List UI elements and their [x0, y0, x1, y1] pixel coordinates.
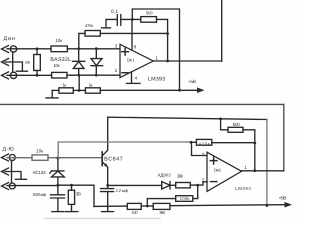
wire C1 right lead: [121, 18, 141, 20]
ground C3: [102, 211, 114, 213]
resistor R15 360 label: [159, 210, 166, 215]
arrow +5V bottom: [285, 202, 293, 208]
svg-text:360: 360: [159, 210, 166, 215]
connector X2 pin 3 arrow: [2, 183, 9, 190]
svg-text:10к: 10к: [54, 63, 60, 68]
wire pin2 node to DA2 pin2: [198, 182, 207, 185]
svg-text:470к: 470к: [85, 23, 93, 28]
connector X1 body bus: [12, 52, 14, 72]
svg-text:750: 750: [76, 191, 82, 196]
capacitor C2: [51, 185, 65, 211]
resistor R4 470K label: [85, 23, 93, 28]
connector X2 body bus: [11, 161, 13, 184]
wire pin4 to ground: [131, 72, 133, 83]
svg-text:+5В: +5В: [188, 79, 196, 84]
wire R4 right to pullup node: [100, 32, 167, 34]
svg-text:10к: 10к: [55, 38, 62, 43]
pin number 1: [155, 55, 158, 60]
svg-text:BAS32L: BAS32L: [50, 57, 71, 63]
node C1/R5: [131, 18, 134, 21]
wire rail down to DA2 output: [283, 104, 285, 170]
wire +5V loop top: [132, 9, 179, 90]
op-amp DA1 label: [127, 58, 136, 63]
wire output DA2: [242, 170, 284, 172]
svg-text:DA.1: DA.1: [127, 58, 136, 63]
resistor R7 1K label: [89, 82, 93, 87]
transistor Q1 emitter arrow: [104, 163, 108, 167]
node bias/pin3: [190, 141, 193, 144]
connector X1 pin 1 arrow: [2, 46, 9, 53]
wire R9 leads: [71, 185, 73, 211]
wire R4 left lead down to pin3 row: [79, 33, 85, 48]
diode VD1 VD2 BAS32L label: [50, 57, 71, 63]
wire R12 to pin2 node: [190, 184, 197, 186]
node R13 tap on rail: [146, 205, 149, 208]
svg-text:100: 100: [132, 210, 139, 215]
wire base row: [48, 157, 102, 159]
svg-text:1: 1: [244, 165, 247, 170]
resistor R6 1K: [59, 88, 73, 93]
resistor R11 500 label: [233, 122, 241, 127]
node R5/R4 junction: [166, 32, 169, 35]
op-amp DA1 plus: [122, 48, 129, 55]
node R10 right: [253, 142, 256, 145]
resistor R8 10K: [32, 155, 48, 160]
arrow +5V top: [197, 87, 205, 93]
pin number 8: [134, 44, 137, 49]
connector X2 pin 1 circle: [9, 155, 15, 161]
op-amp DA1 minus: [122, 72, 128, 74]
wire R1 leads: [36, 49, 38, 75]
resistor R15 360: [153, 203, 170, 209]
svg-text:1к: 1к: [89, 82, 93, 87]
wire pin1 to 10K R8: [7, 157, 32, 159]
svg-text:20к: 20к: [25, 60, 31, 64]
resistor R7 1K: [85, 88, 100, 93]
resistor R9 750 label: [76, 191, 82, 196]
resistor R14 100 label: [132, 210, 139, 215]
+5V label bottom: [279, 196, 287, 202]
wire pin8 supply: [131, 19, 133, 50]
svg-text:100k: 100k: [180, 196, 191, 201]
node zener bottom: [57, 184, 60, 187]
ground R9: [66, 211, 78, 213]
wire divider tap to pin2 row: [78, 75, 80, 90]
pin number 2: [115, 68, 118, 73]
pin number 1 DA2: [244, 165, 247, 170]
diode VD4: [162, 182, 176, 190]
resistor R10 470K box with label: [196, 139, 211, 145]
op-amp DA2 minus: [211, 181, 217, 183]
svg-text:LM393: LM393: [148, 76, 165, 82]
wire output up to top edge: [221, 0, 223, 61]
diode VD4 KD903 label: [158, 173, 171, 178]
op-amp DA2 triangle: [207, 152, 242, 191]
connector X1 pin 3 circle: [10, 72, 16, 78]
wire R11 left lead up to rail: [221, 119, 228, 130]
capacitor C1: [117, 15, 121, 26]
resistor R14 100: [127, 203, 141, 209]
wire pin2 to ground: [5, 62, 22, 71]
resistor R2 10K label: [55, 38, 62, 43]
node rail to +5V line: [266, 204, 269, 207]
connector X1 pin 3 arrow: [2, 72, 9, 79]
wire output DA1: [153, 60, 221, 62]
resistor R5 500: [141, 17, 157, 23]
svg-text:470к: 470к: [199, 141, 210, 146]
wire zener node to rail corner: [58, 185, 94, 206]
capacitor C3: [101, 185, 114, 211]
capacitor C2 1000mf label: [32, 192, 46, 197]
svg-text:+5В: +5В: [279, 196, 287, 202]
svg-text:4: 4: [135, 75, 138, 80]
separator rail wire: [0, 103, 284, 105]
wire rail down right side: [266, 120, 268, 206]
svg-text:2: 2: [115, 68, 118, 73]
wire C1 left lead: [106, 19, 117, 27]
resistor R9 750: [68, 190, 74, 204]
resistor R3 10K label: [54, 63, 60, 68]
svg-text:1000 мф: 1000 мф: [32, 192, 46, 197]
wire emitter to VD4: [108, 184, 162, 186]
ground C1: [102, 27, 111, 29]
svg-text:Д-Ю: Д-Ю: [3, 146, 14, 152]
op-amp DA2 plus: [210, 157, 217, 164]
wire pin3 to 10K R3: [7, 74, 52, 76]
op-amp DA1 type label LM393: [148, 76, 165, 82]
svg-text:BC847: BC847: [104, 156, 123, 162]
zener VD3 KC133 label: [33, 170, 46, 175]
node output/pullup DA2: [253, 169, 256, 172]
wire +5V bottom rail left part: [94, 205, 127, 207]
wire base bias line: [58, 142, 191, 158]
capacitor C1 0,1 label: [111, 9, 118, 15]
resistor R8 10K label: [36, 148, 44, 153]
pin number 3 DA2: [202, 152, 205, 157]
node 500 riser on rail: [219, 118, 222, 121]
faint scan artifact line: [45, 217, 160, 219]
op-amp DA1 triangle: [120, 44, 153, 77]
diode VD2: [91, 49, 103, 75]
op-amp DA2 label: [214, 168, 222, 173]
ground C2: [52, 211, 64, 213]
+5V label top: [188, 79, 196, 84]
connector X2 pin 2 arrow: [2, 168, 9, 175]
resistor R2 10K: [51, 46, 67, 52]
capacitor C3 2,2mf label: [116, 188, 129, 193]
wire between R14 R15: [141, 205, 153, 207]
wire pin3 row to op-amp: [67, 48, 120, 50]
node diode VD1 top: [77, 47, 80, 50]
op-amp DA2 type label LM393: [235, 186, 251, 191]
resistor R12 10k label: [177, 174, 184, 179]
pin number 2 DA2: [202, 178, 205, 183]
wire R10 leads: [191, 141, 255, 143]
node R9 top: [70, 184, 73, 187]
resistor R5 500 label: [146, 11, 153, 16]
wire pin3 DA2: [192, 142, 208, 155]
node pin2 junction: [196, 184, 199, 187]
svg-text:500: 500: [146, 11, 153, 16]
svg-text:LM393: LM393: [235, 186, 251, 191]
svg-text:3: 3: [202, 152, 205, 157]
svg-text:Дин: Дин: [4, 36, 15, 42]
connector X2 label: [3, 146, 14, 152]
svg-text:КС133: КС133: [33, 170, 46, 175]
ground pin4: [127, 82, 141, 84]
resistor R4 470K: [85, 31, 100, 37]
node divider tap: [78, 89, 81, 92]
wire pin1 to 10K R2: [7, 48, 51, 50]
ground pin2: [16, 70, 27, 72]
resistor R11 500: [228, 127, 243, 132]
transistor Q1 BC847 label: [104, 156, 123, 162]
wire R11 right lead down to output: [243, 130, 255, 171]
resistor R1 20K label: [25, 60, 31, 64]
node output pullup: [166, 60, 169, 63]
resistor R12 10k: [176, 183, 191, 188]
resistor R3 10K: [52, 72, 67, 78]
wire R13 left lead to rail: [147, 199, 175, 206]
svg-text:10k: 10k: [177, 174, 184, 179]
connector X1 "Дин" label: [4, 36, 15, 42]
resistor R13 100k box with label: [176, 196, 193, 202]
svg-text:500: 500: [233, 122, 241, 127]
svg-text:8: 8: [134, 44, 137, 49]
pin number 3: [115, 44, 118, 49]
connector X2 pin 3 circle: [9, 183, 15, 189]
transistor Q1 collector: [102, 117, 108, 156]
resistor R6 1K label: [63, 82, 67, 87]
node diode VD2 top: [95, 47, 98, 50]
wire to R6: [52, 89, 59, 91]
svg-text:1: 1: [155, 55, 158, 60]
resistor R1 20K: [34, 55, 41, 71]
ground X2 pin2: [16, 178, 27, 180]
wire pin2 row to op-amp: [67, 74, 120, 76]
connector X1 pin 2 arrow: [2, 59, 9, 66]
wire pin3 to zener node: [7, 185, 58, 187]
pin number 4: [135, 75, 138, 80]
node R1 bottom: [36, 74, 39, 77]
svg-text:1к: 1к: [63, 82, 67, 87]
node diode VD2 bottom: [95, 74, 98, 77]
wire divider middle: [73, 89, 85, 91]
svg-text:3: 3: [115, 44, 118, 49]
diode VD1: [73, 49, 85, 75]
node base: [57, 157, 60, 160]
svg-text:10к: 10к: [36, 148, 44, 153]
wire R5 right lead down to output: [157, 19, 168, 61]
wire +5V bottom rail right part: [170, 205, 285, 206]
wire 100k branch: [193, 185, 198, 199]
node +5V riser: [178, 89, 181, 92]
connector X2 pin 1 arrow: [2, 154, 9, 161]
zener VD3: [50, 158, 65, 185]
svg-text:КД903: КД903: [158, 173, 171, 178]
wire pin2 to ground: [5, 172, 21, 180]
ground divider left: [46, 90, 58, 98]
transistor Q1 emitter: [102, 162, 108, 186]
node diode VD1 bottom: [78, 74, 81, 77]
wire +5V rail top section: [100, 89, 197, 91]
node R1 top: [36, 47, 39, 50]
svg-text:DA.2: DA.2: [214, 168, 222, 173]
transistor Q1 base bar: [101, 152, 103, 166]
wire collector rail: [108, 117, 267, 119]
connector X1 pin 1 circle: [10, 46, 16, 52]
svg-text:2,2 мф: 2,2 мф: [116, 188, 129, 193]
node emitter: [106, 184, 109, 187]
